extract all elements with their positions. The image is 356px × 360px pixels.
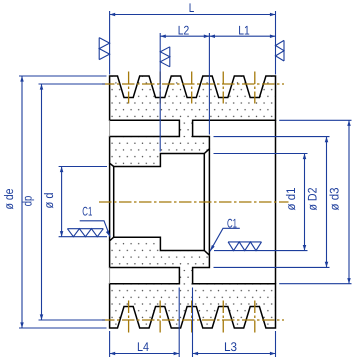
pitch line top [102, 83, 284, 85]
svg-text:L4: L4 [137, 340, 149, 354]
svg-text:C1: C1 [227, 217, 237, 231]
dimension dp [39, 84, 106, 320]
bore chamfer edge [113, 167, 115, 238]
pulley lower section body (mirror) [110, 237, 276, 328]
svg-text:C1: C1 [82, 205, 92, 219]
counterbore chamfer edge [203, 154, 205, 251]
counterbore opening edge on hub right face [208, 149, 210, 255]
surface finish triangles on bore line (left) [67, 229, 103, 237]
visible edge lines [110, 120, 276, 283]
chamfer label C1 right with leader [210, 228, 240, 251]
groove centerlines bottom [128, 301, 130, 333]
groove centerlines top [128, 72, 130, 104]
svg-text:L3: L3 [224, 340, 237, 354]
pitch line bottom [102, 319, 284, 321]
svg-text:ø d3: ø d3 [328, 187, 342, 210]
axis centerline [99, 201, 289, 203]
centerlines (orange dash-dot) [99, 72, 289, 333]
svg-text:ø D2: ø D2 [306, 187, 320, 210]
svg-text:L: L [189, 1, 195, 15]
dimension L4 / L3 [110, 288, 276, 358]
recess opening thin edges on left face [109, 120, 111, 283]
dimension ø d3 [279, 120, 351, 283]
surface finish triangles on d1 line (right) [228, 242, 261, 251]
dimension ø d [59, 167, 107, 237]
dimension ø D2 [214, 137, 330, 268]
pulley upper section body (rim with 5 V-grooves, web, hub, bore) [110, 76, 276, 328]
svg-text:L2: L2 [178, 23, 190, 37]
dimension L2 / L1 [160, 33, 275, 152]
roughness symbol (double triangle) at counterbore step [160, 47, 170, 67]
dimension ø d1 [214, 154, 308, 251]
bore opening edge on left face [109, 163, 111, 241]
svg-text:ø de: ø de [2, 188, 16, 209]
svg-text:L1: L1 [238, 23, 250, 37]
svg-text:dp: dp [21, 196, 35, 207]
roughness symbol (double triangle) at left face [99, 38, 109, 60]
dimension ø de [19, 76, 107, 328]
dimension L [110, 11, 276, 75]
svg-text:ø d1: ø d1 [284, 187, 298, 210]
svg-text:ø d: ø d [42, 192, 56, 208]
rim inner edge on right face [275, 120, 277, 283]
chamfer label C1 left with leader [80, 221, 111, 237]
roughness symbol (double triangle) at right face [276, 40, 285, 61]
